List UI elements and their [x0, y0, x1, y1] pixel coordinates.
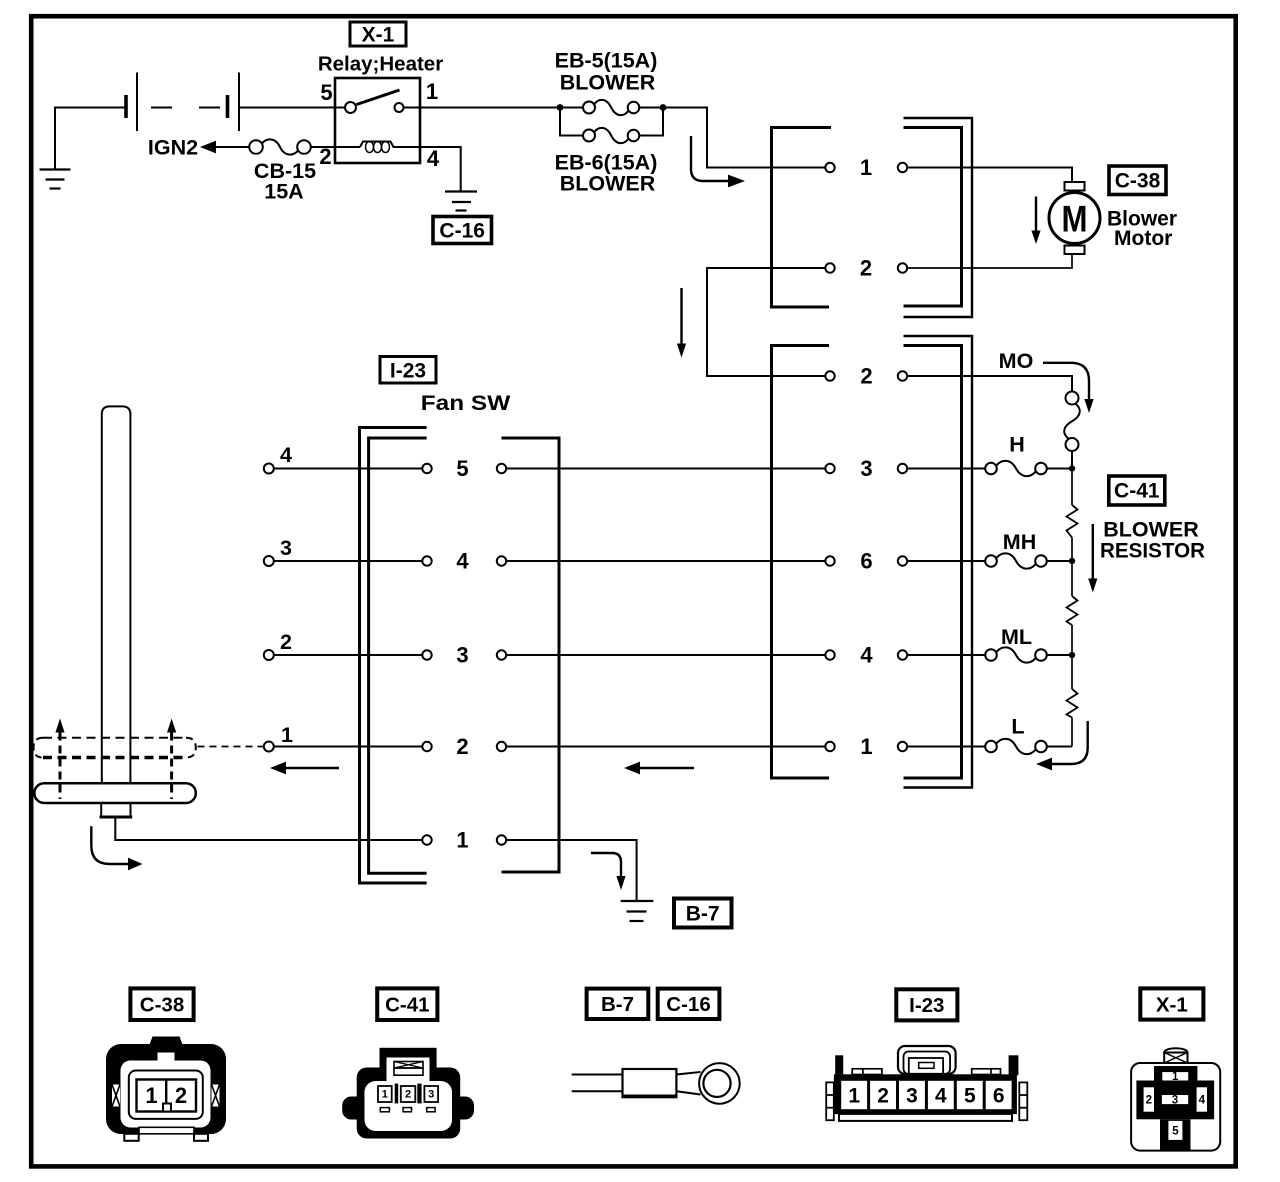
- fuse ML: [907, 625, 1069, 663]
- svg-text:C-16: C-16: [439, 220, 485, 243]
- svg-text:2: 2: [280, 630, 292, 654]
- fan switch right half (male bracket): [502, 438, 560, 872]
- svg-text:1: 1: [281, 723, 293, 747]
- outer pin 1: [264, 723, 423, 752]
- svg-text:L: L: [1011, 715, 1024, 739]
- flow arrow (left, at lower connector): [624, 762, 694, 775]
- svg-text:3: 3: [1172, 1095, 1178, 1107]
- svg-text:3: 3: [860, 456, 872, 481]
- svg-text:ML: ML: [1001, 625, 1032, 649]
- svg-text:RESISTOR: RESISTOR: [1100, 539, 1205, 563]
- connector C-38 upper left half (male bracket): [772, 128, 832, 308]
- C-38 label box: [1109, 166, 1166, 195]
- pin 3 (lower connector): [825, 456, 907, 481]
- wire fan SW 5 to connector 3: [506, 468, 825, 470]
- svg-text:IGN2: IGN2: [148, 136, 198, 160]
- wire relay pin 4 to ground: [420, 147, 461, 192]
- outer pin 4: [264, 443, 423, 474]
- svg-text:BLOWER: BLOWER: [560, 71, 656, 95]
- svg-text:4: 4: [427, 146, 440, 171]
- outer pin 3: [264, 536, 423, 566]
- relay coil: [335, 146, 360, 148]
- outer pin 2: [264, 630, 423, 660]
- connector X-1 pictograph: [1131, 1048, 1220, 1150]
- pin 1 (lower connector): [825, 734, 907, 759]
- svg-text:EB-5(15A): EB-5(15A): [555, 49, 658, 73]
- ground (battery negative): [40, 108, 127, 189]
- B-7 label box: [674, 899, 732, 928]
- wire battery to relay pin 5: [239, 107, 345, 109]
- ring terminal pictograph (B-7 / C-16): [572, 1063, 740, 1104]
- C-41 label box: [1109, 476, 1165, 505]
- svg-text:BLOWER: BLOWER: [560, 172, 656, 196]
- X-1 label box: [350, 22, 406, 47]
- dashed arrow up (left): [55, 719, 64, 800]
- svg-text:I-23: I-23: [390, 360, 426, 383]
- pin 6 (lower connector): [825, 549, 907, 574]
- resistor R1 (H-MH): [1067, 472, 1078, 558]
- wire fan SW pin 1 to ground: [506, 840, 636, 901]
- wire upper pin 2 to lower pin 2: [707, 268, 825, 376]
- svg-text:Fan SW: Fan SW: [421, 391, 511, 415]
- svg-text:2: 2: [1146, 1095, 1152, 1107]
- svg-text:5: 5: [320, 80, 332, 105]
- svg-text:2: 2: [405, 1089, 411, 1101]
- resistor R2 (MH-ML): [1067, 564, 1078, 652]
- relay X-1 Relay;Heater: [318, 53, 443, 172]
- svg-text:6: 6: [860, 549, 872, 574]
- B-7 label box (bottom): [587, 989, 649, 1019]
- svg-text:3: 3: [428, 1089, 434, 1101]
- svg-text:X-1: X-1: [1156, 994, 1188, 1017]
- node ML junction: [1069, 652, 1075, 658]
- ground C-16: [445, 192, 477, 211]
- fan switch pin 1: [422, 828, 506, 853]
- fan switch pin 5: [422, 456, 506, 481]
- fan switch pin 4: [422, 549, 506, 574]
- svg-text:1: 1: [860, 734, 872, 759]
- ground B-7: [621, 901, 654, 921]
- C-38 label box (bottom): [130, 988, 193, 1020]
- svg-text:M: M: [1062, 199, 1088, 240]
- wire fan SW 2 to connector 1: [506, 746, 825, 748]
- svg-text:Motor: Motor: [1114, 227, 1172, 250]
- svg-text:2: 2: [860, 256, 872, 281]
- svg-text:C-41: C-41: [1114, 480, 1160, 503]
- dashed wire to outer pin 1: [198, 746, 264, 748]
- fan switch pin 2: [422, 734, 506, 759]
- Blower Motor label: [1107, 208, 1177, 251]
- connector C-41 pictograph: [342, 1048, 474, 1139]
- flow arrow (into ground B-7): [591, 853, 626, 890]
- svg-text:3: 3: [906, 1085, 918, 1108]
- svg-text:C-38: C-38: [140, 994, 184, 1017]
- svg-text:4: 4: [935, 1085, 947, 1108]
- IGN2 label and arrow: [148, 136, 249, 160]
- connector C-38 pictograph: [106, 1037, 226, 1141]
- BLOWER RESISTOR label: [1100, 518, 1205, 563]
- fan switch lever: [102, 406, 131, 783]
- svg-text:2: 2: [319, 144, 331, 169]
- connector C-41 lower right half (female bracket): [904, 336, 973, 788]
- svg-text:2: 2: [175, 1083, 187, 1108]
- svg-text:1: 1: [382, 1089, 388, 1101]
- svg-text:2: 2: [877, 1085, 889, 1108]
- svg-text:Relay;Heater: Relay;Heater: [318, 53, 443, 76]
- X-1 label box (bottom): [1140, 988, 1203, 1019]
- svg-text:X-1: X-1: [362, 24, 395, 47]
- svg-text:C-16: C-16: [666, 993, 710, 1016]
- svg-text:C-38: C-38: [1115, 170, 1161, 193]
- C-16 label box: [433, 217, 492, 244]
- wire lower pin 2 to MO coil: [907, 376, 1072, 392]
- fan switch left half (female bracket, outer): [360, 428, 427, 884]
- svg-text:H: H: [1009, 433, 1025, 457]
- fuse H: [907, 433, 1069, 477]
- wire fan SW 4 to connector 6: [506, 560, 825, 562]
- fan switch pin 3: [422, 643, 506, 668]
- flow arrow (into connector pin 1): [691, 136, 745, 187]
- pin 2 (upper connector): [825, 256, 907, 281]
- flow arrow (left, at fan SW): [270, 762, 339, 775]
- wire relay pin 1 to fuse node: [404, 107, 558, 109]
- svg-text:1: 1: [848, 1085, 860, 1108]
- flow arrow (down, between connectors): [677, 288, 686, 358]
- svg-text:4: 4: [280, 443, 292, 467]
- fuse MH: [907, 530, 1069, 569]
- blower motor M: [1049, 182, 1100, 254]
- svg-text:4: 4: [456, 549, 469, 574]
- coil MO (blower resistor thermal fuse): [1064, 392, 1080, 466]
- I-23 label box (bottom): [896, 989, 957, 1020]
- pin 4 (lower connector): [825, 643, 907, 668]
- svg-text:2: 2: [456, 734, 468, 759]
- svg-text:2: 2: [860, 364, 872, 389]
- fuse L: [907, 715, 1072, 755]
- I-23 label box: [380, 357, 436, 384]
- node (fuse branch right): [660, 104, 667, 111]
- flow arrow (down, at motor): [1031, 197, 1040, 245]
- svg-text:I-23: I-23: [909, 994, 944, 1017]
- svg-text:1: 1: [860, 155, 872, 180]
- connector C-38 upper right half (female bracket): [904, 118, 973, 317]
- node (fuse branch left): [557, 104, 564, 111]
- svg-text:3: 3: [456, 643, 468, 668]
- C-16 label box (bottom): [658, 989, 720, 1019]
- svg-text:1: 1: [1172, 1071, 1179, 1083]
- svg-text:MH: MH: [1003, 530, 1036, 554]
- fuse EB-6(15A) BLOWER (parallel branch): [555, 108, 663, 196]
- svg-text:MO: MO: [999, 349, 1034, 373]
- wire pin 1 to motor: [907, 168, 1072, 183]
- relay switch contacts: [345, 102, 356, 113]
- svg-text:3: 3: [280, 536, 292, 560]
- svg-text:1: 1: [426, 79, 438, 104]
- resistor R3 (ML-L): [1067, 658, 1078, 746]
- flow arrow (MO, curved down): [1043, 363, 1094, 413]
- svg-text:1: 1: [145, 1083, 157, 1108]
- svg-text:5: 5: [456, 456, 468, 481]
- pin 1 (upper connector): [825, 155, 907, 180]
- node H junction: [1069, 465, 1075, 471]
- svg-text:1: 1: [456, 828, 468, 853]
- pin 2 (lower connector): [825, 364, 907, 389]
- svg-text:B-7: B-7: [601, 993, 634, 1016]
- lever base (solid stadium): [34, 783, 195, 803]
- svg-text:4: 4: [1199, 1095, 1206, 1107]
- flow arrow (lever, curved right): [91, 826, 142, 870]
- lever slot (dashed stadium): [34, 738, 196, 758]
- fuse EB-5(15A) BLOWER: [555, 49, 660, 116]
- svg-text:6: 6: [993, 1085, 1005, 1108]
- connector C-41 lower left half (male bracket): [772, 346, 830, 779]
- svg-text:5: 5: [964, 1085, 976, 1108]
- dashed arrow up (right): [167, 719, 176, 800]
- lever foot tab: [100, 803, 133, 817]
- node MH junction: [1069, 558, 1075, 564]
- battery: [126, 73, 239, 132]
- svg-text:15A: 15A: [264, 180, 303, 204]
- wire fuse node to connector pin 1: [663, 108, 825, 168]
- wire fan SW 3 to connector 4: [506, 654, 825, 656]
- wire motor to pin 2: [907, 254, 1072, 268]
- connector I-23 pictograph: [826, 1046, 1027, 1121]
- svg-text:4: 4: [860, 643, 873, 668]
- circuit breaker CB-15 15A: [249, 139, 335, 203]
- wire lever to fan SW pin 1: [115, 817, 422, 840]
- C-41 label box (bottom): [377, 988, 437, 1020]
- flow arrow (out of L, curved left): [1036, 721, 1088, 770]
- svg-text:B-7: B-7: [686, 903, 720, 926]
- fan switch left half (female bracket, inner): [369, 438, 427, 873]
- svg-text:C-41: C-41: [385, 994, 429, 1017]
- flow arrow (down, blower resistor): [1088, 524, 1097, 593]
- svg-text:5: 5: [1172, 1126, 1179, 1138]
